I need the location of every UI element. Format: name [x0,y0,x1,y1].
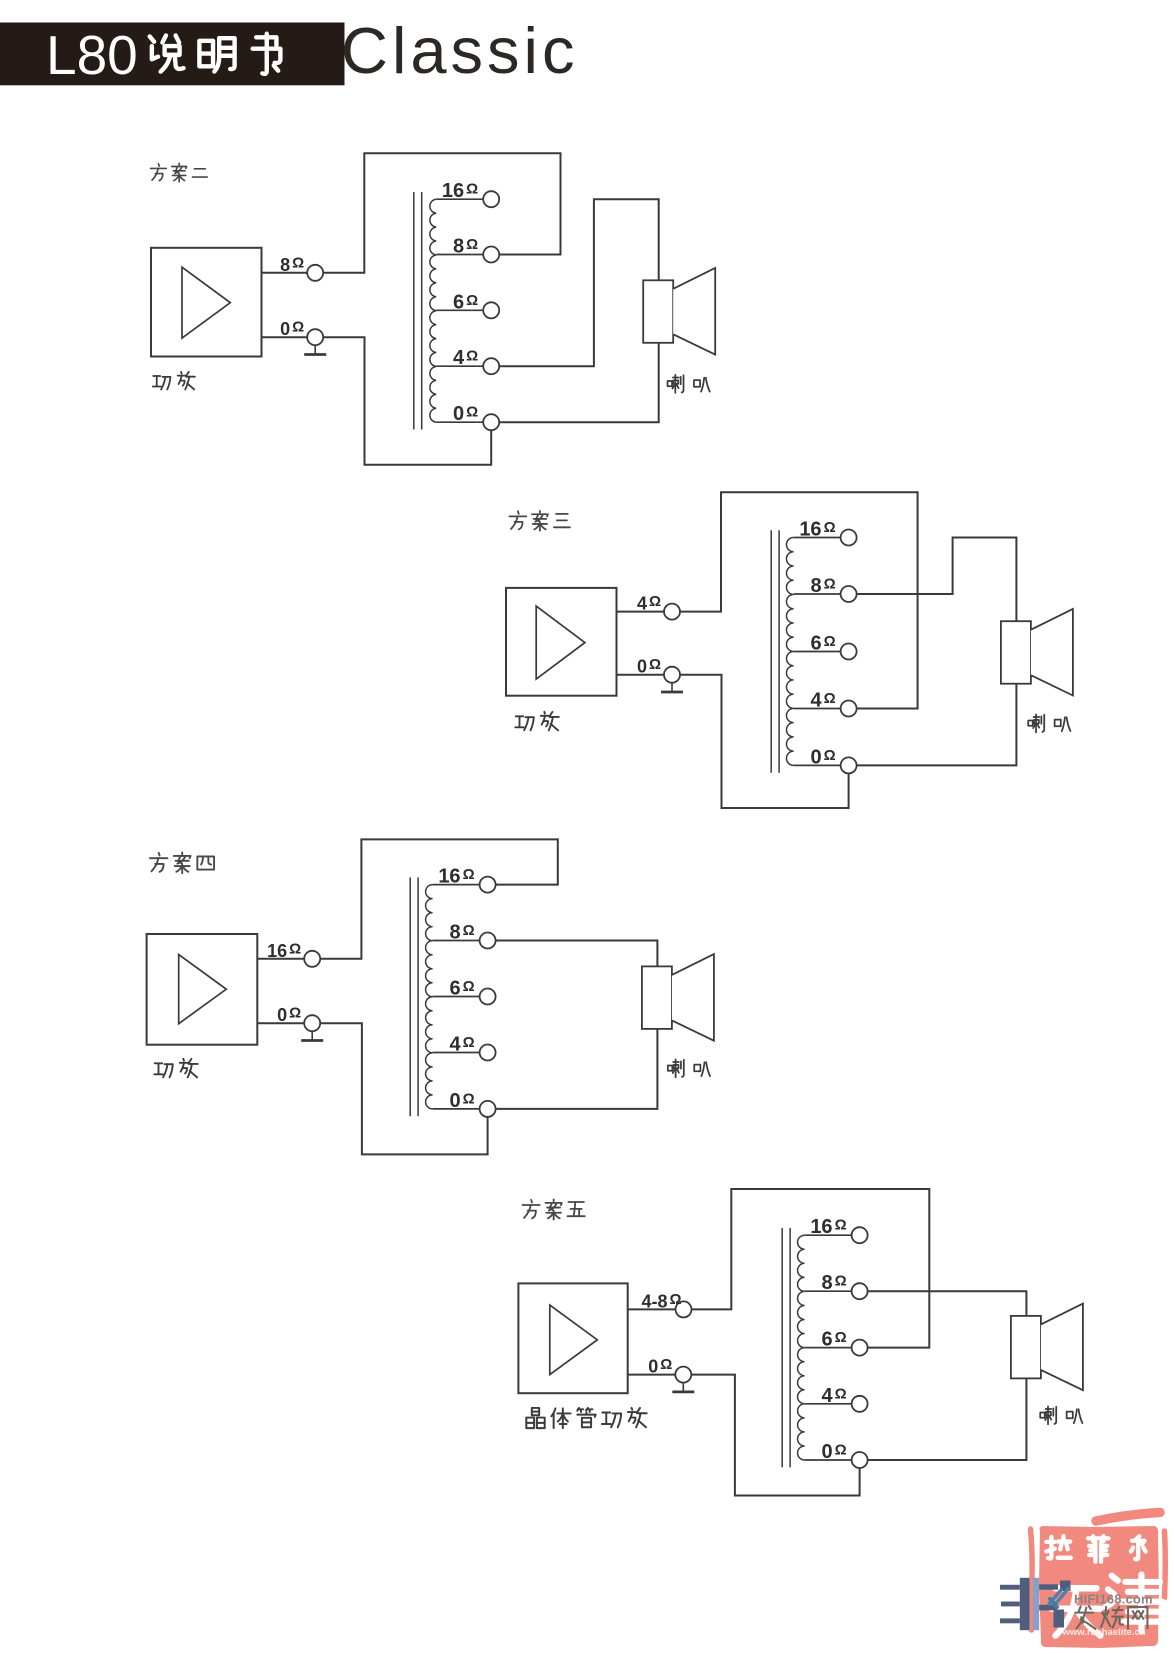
svg-text:www.raphaelite.cn: www.raphaelite.cn [1062,1627,1146,1638]
label speaker [668,375,710,393]
label scheme title [523,1199,585,1219]
wire amp 4 output to tap 4 (top run) [680,492,918,708]
wire amp 16 output to tap 16 (top run) [320,839,558,958]
wire tap 4 lead [433,1052,480,1054]
terminal 0 output [307,329,323,345]
wire amp 4-8 output [628,1308,676,1310]
watermark big char 天 [1052,1588,1101,1635]
wire amp 0 output to tap 0 (bottom run) [680,675,849,808]
terminal tap 8 [480,933,496,949]
terminal tap 6 [483,302,499,318]
ground symbol [672,1383,694,1392]
wire tap 0 lead [433,1108,480,1110]
wire amp 0 output [617,674,665,676]
speaker S4 [642,954,714,1041]
label amplifier [154,1059,197,1077]
terminal 4-8 output [676,1301,692,1317]
logo FEI dark bars [1000,1578,1071,1630]
speaker S3 [1001,609,1073,696]
header text 说明书 [150,34,281,74]
amplifier box S3 [506,588,617,696]
wire tap 0 lead [794,764,841,766]
terminal tap 0 [852,1452,868,1468]
wire tap 4 lead [436,365,483,367]
ground symbol [301,1031,323,1040]
transformer winding [798,1235,805,1460]
terminal tap 4 [841,701,857,717]
wire tap 0 to speaker (-) [868,1378,1027,1460]
transformer winding [786,538,793,766]
wire tap 6 lead [436,309,483,311]
amplifier triangle symbol [182,267,230,338]
wire tap 8 lead [794,593,841,595]
terminal tap 6 [480,989,496,1005]
terminal tap 4 [483,358,499,374]
wire tap 0 to speaker (-) [496,1029,658,1109]
terminal tap 6 [841,644,857,660]
wire tap 6 lead [433,996,480,998]
wire tap 0 to speaker (-) [857,684,1017,766]
terminal 8 output [307,265,323,281]
watermark text 拉菲尔 [1046,1536,1145,1562]
wire tap 6 lead [794,651,841,653]
terminal 16 output [304,951,320,967]
amplifier box S4 [147,934,258,1045]
terminal tap 0 [480,1101,496,1117]
transformer core [410,877,418,1116]
wire tap 0 to speaker (-) [499,343,659,422]
wire tap 8 lead [805,1290,852,1292]
terminal 4 output [664,604,680,620]
wire tap 8 lead [433,940,480,942]
logo FEI diagonal strokes [1049,1589,1068,1604]
terminal tap 16 [841,530,857,546]
wire amp 8 output [262,272,308,274]
wire tap 0 lead [436,421,483,423]
terminal tap 0 [841,757,857,773]
amplifier triangle symbol [550,1305,598,1375]
label scheme title [150,852,214,873]
wire tap 8 lead [436,254,483,256]
terminal tap 4 [480,1045,496,1061]
wire amp 0 output to tap 0 (bottom run) [691,1375,859,1496]
wire tap 4 lead [794,708,841,710]
wire tap 0 lead [805,1459,852,1461]
terminal tap 6 [852,1340,868,1356]
label amplifier [515,712,558,730]
wire tap 8 to speaker (+) [496,941,658,967]
terminal tap 16 [852,1227,868,1243]
watermark text 发烧网 [1076,1606,1148,1629]
amplifier triangle symbol [179,955,227,1024]
wire amp 4 output [617,611,665,613]
label speaker [668,1059,710,1077]
wire amp 4-8 output to tap 6 (top run) [692,1189,930,1348]
label speaker [1040,1406,1082,1424]
watermark stamp border left [1031,1529,1033,1630]
svg-text:L80: L80 [46,24,138,86]
wire tap 8 to speaker (+) [857,538,1017,622]
wire amp 16 output [257,958,304,960]
speaker S5 [1011,1304,1083,1391]
label speaker [1028,714,1070,732]
wire tap 6 lead [805,1347,852,1349]
wire amp 8 output to tap 8 (top run) [323,153,560,272]
label scheme title [151,163,208,181]
label scheme title [510,511,570,531]
label amplifier [153,372,195,390]
wire tap 16 lead [436,198,483,200]
terminal 0 output [664,667,680,683]
amplifier box S2 [151,248,262,357]
wire amp 0 output [628,1374,676,1376]
transformer core [782,1228,790,1467]
wire amp 0 output to tap 0 (bottom run) [320,1023,487,1154]
watermark stamp border right [1162,1531,1168,1598]
terminal 0 output [304,1015,320,1031]
terminal tap 8 [852,1283,868,1299]
transformer winding [430,199,436,422]
ground symbol [304,345,326,354]
wire tap 16 lead [433,884,480,886]
terminal tap 8 [841,586,857,602]
watermark stamp base [1039,1526,1159,1648]
label amplifier [526,1408,646,1428]
wire amp 0 output to tap 0 (bottom run) [323,337,491,465]
terminal tap 16 [480,877,496,893]
ground symbol [661,683,683,692]
speaker S2 [643,268,715,355]
transformer core [414,192,422,430]
terminal tap 16 [483,191,499,207]
watermark big char 津 [1105,1574,1162,1631]
svg-text:Classic: Classic [341,14,578,87]
wire tap 16 lead [794,537,841,539]
terminal tap 4 [852,1396,868,1412]
amplifier box S5 [518,1283,627,1393]
wire amp 0 output [262,336,308,338]
terminal 0 output [675,1367,691,1383]
wire amp 0 output [257,1022,304,1024]
terminal tap 0 [483,414,499,430]
wire tap 4 to speaker (+) [499,199,659,366]
transformer core [771,530,779,772]
transformer winding [426,885,433,1109]
wire tap 16 lead [805,1234,852,1236]
svg-text:HIFI168.com: HIFI168.com [1074,1592,1153,1607]
wire tap 4 lead [805,1403,852,1405]
header black bar [0,23,345,86]
logo FEI light bar [1033,1578,1039,1630]
wire tap 8 to speaker (+) [868,1291,1027,1316]
terminal tap 8 [483,247,499,263]
amplifier triangle symbol [536,606,585,679]
watermark stamp border top-right [1096,1513,1160,1522]
